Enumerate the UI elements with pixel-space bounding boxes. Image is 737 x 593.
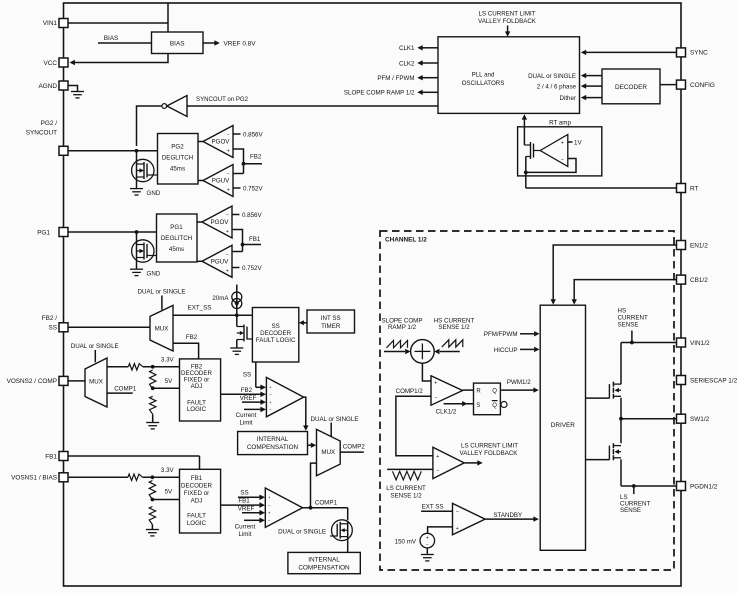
svg-text:+: + <box>226 229 229 235</box>
svg-text:20mA: 20mA <box>212 295 229 302</box>
svg-text:−: − <box>268 518 271 523</box>
svg-text:−: − <box>268 503 271 508</box>
svg-text:Q: Q <box>492 403 497 409</box>
svg-text:LS CURRENT LIMIT: LS CURRENT LIMIT <box>461 442 518 449</box>
svg-text:−: − <box>227 171 230 177</box>
svg-text:5V: 5V <box>165 489 173 496</box>
svg-text:VIN1/2: VIN1/2 <box>690 340 710 347</box>
svg-text:DECODER: DECODER <box>260 330 291 337</box>
svg-text:SS: SS <box>48 325 57 332</box>
svg-text:PGUV: PGUV <box>211 259 229 266</box>
svg-text:Dither: Dither <box>559 95 576 102</box>
svg-text:LOGIC: LOGIC <box>187 520 207 527</box>
svg-text:CLK1: CLK1 <box>399 45 415 52</box>
svg-text:+: + <box>268 511 271 516</box>
svg-text:VOSNS2 / COMP: VOSNS2 / COMP <box>7 378 57 385</box>
svg-text:DUAL or SINGLE: DUAL or SINGLE <box>278 528 326 535</box>
svg-text:INTERNAL: INTERNAL <box>257 436 289 443</box>
svg-text:FB2: FB2 <box>186 334 198 341</box>
svg-text:−: − <box>426 542 429 548</box>
svg-text:VALLEY FOLDBACK: VALLEY FOLDBACK <box>460 450 519 457</box>
svg-text:SLOPE COMP RAMP 1/2: SLOPE COMP RAMP 1/2 <box>344 90 415 97</box>
svg-text:+: + <box>561 140 564 146</box>
svg-text:PLL and: PLL and <box>472 71 495 78</box>
svg-text:CONFIG: CONFIG <box>690 82 715 89</box>
svg-text:Limit: Limit <box>239 419 252 426</box>
svg-text:+: + <box>269 385 272 390</box>
svg-text:INT SS: INT SS <box>321 315 341 322</box>
svg-text:COMP1/2: COMP1/2 <box>396 388 424 395</box>
svg-text:VREF: VREF <box>238 505 255 512</box>
svg-text:SYNCOUT: SYNCOUT <box>26 130 57 137</box>
svg-text:MUX: MUX <box>321 449 335 456</box>
svg-text:VREF: VREF <box>240 395 257 402</box>
svg-text:EN1/2: EN1/2 <box>690 242 708 249</box>
svg-text:LS CURRENT: LS CURRENT <box>386 485 426 492</box>
svg-text:LS CURRENT LIMIT: LS CURRENT LIMIT <box>479 10 536 17</box>
svg-text:+: + <box>227 188 230 194</box>
svg-text:R: R <box>476 389 481 395</box>
svg-text:−: − <box>269 392 272 397</box>
svg-text:CHANNEL 1/2: CHANNEL 1/2 <box>385 236 427 243</box>
svg-text:FAULT LOGIC: FAULT LOGIC <box>256 337 296 344</box>
svg-text:PG2 /: PG2 / <box>41 120 58 127</box>
svg-text:PFM / FPWM: PFM / FPWM <box>377 75 414 82</box>
svg-text:3.3V: 3.3V <box>161 356 175 363</box>
svg-text:150 mV: 150 mV <box>395 538 417 545</box>
svg-text:PG2: PG2 <box>171 143 184 150</box>
svg-text:RT: RT <box>690 185 698 192</box>
svg-text:−: − <box>227 132 230 138</box>
svg-text:PGOV: PGOV <box>212 139 231 146</box>
svg-text:Q: Q <box>492 389 497 395</box>
svg-text:2 / 4 / 6 phase: 2 / 4 / 6 phase <box>537 83 577 90</box>
svg-text:RT amp: RT amp <box>549 120 571 127</box>
svg-text:SENSE 1/2: SENSE 1/2 <box>438 324 470 331</box>
svg-text:GND: GND <box>147 190 161 197</box>
svg-text:3.3V: 3.3V <box>161 467 175 474</box>
svg-text:FB1: FB1 <box>45 453 57 460</box>
svg-text:0.752V: 0.752V <box>243 185 263 192</box>
svg-text:−: − <box>226 252 229 258</box>
svg-text:1V: 1V <box>574 139 582 146</box>
svg-text:FB1: FB1 <box>249 236 261 243</box>
svg-text:+: + <box>434 380 437 386</box>
svg-text:SYNC: SYNC <box>690 50 708 57</box>
svg-text:−: − <box>436 468 439 474</box>
svg-text:HS: HS <box>618 307 627 314</box>
svg-text:FAULT: FAULT <box>187 513 206 520</box>
svg-text:CLK2: CLK2 <box>399 60 415 67</box>
svg-text:SENSE 1/2: SENSE 1/2 <box>390 493 422 500</box>
svg-text:SS: SS <box>271 323 279 330</box>
svg-text:−: − <box>226 213 229 219</box>
svg-text:COMP1: COMP1 <box>114 385 137 392</box>
svg-text:PGUV: PGUV <box>212 178 230 185</box>
svg-text:PFM/FPWM: PFM/FPWM <box>484 331 518 338</box>
svg-text:S: S <box>476 403 480 409</box>
svg-text:FB2: FB2 <box>241 387 253 394</box>
svg-text:Current: Current <box>236 412 257 419</box>
svg-text:ADJ: ADJ <box>191 498 203 505</box>
svg-text:SW1/2: SW1/2 <box>690 416 710 423</box>
svg-text:SERIESCAP 1/2: SERIESCAP 1/2 <box>690 377 737 384</box>
svg-text:DRIVER: DRIVER <box>551 422 576 429</box>
svg-text:HICCUP: HICCUP <box>494 347 518 354</box>
svg-text:VOSNS1 / BIAS: VOSNS1 / BIAS <box>11 475 57 482</box>
svg-text:PG1: PG1 <box>170 224 183 231</box>
svg-text:TIMER: TIMER <box>321 323 341 330</box>
svg-text:COMPENSATION: COMPENSATION <box>298 565 350 572</box>
svg-text:ADJ: ADJ <box>191 383 203 390</box>
svg-text:GND: GND <box>147 271 161 278</box>
svg-text:DEGLITCH: DEGLITCH <box>162 154 193 161</box>
svg-text:SENSE: SENSE <box>620 507 641 514</box>
svg-text:DUAL or SINGLE: DUAL or SINGLE <box>138 289 186 296</box>
svg-text:+: + <box>436 454 439 460</box>
svg-text:VREF 0.8V: VREF 0.8V <box>224 40 257 47</box>
svg-text:DEGLITCH: DEGLITCH <box>161 235 192 242</box>
svg-text:INTERNAL: INTERNAL <box>308 557 340 564</box>
svg-text:DECODER: DECODER <box>615 84 647 91</box>
svg-text:45ms: 45ms <box>169 246 184 253</box>
svg-text:+: + <box>268 495 271 500</box>
svg-text:COMP1: COMP1 <box>315 500 338 507</box>
svg-text:SS: SS <box>240 490 248 497</box>
svg-text:FB1: FB1 <box>238 498 250 505</box>
svg-text:Limit: Limit <box>238 531 251 538</box>
svg-text:DUAL or SINGLE: DUAL or SINGLE <box>71 343 119 350</box>
svg-text:VCC: VCC <box>44 60 58 67</box>
svg-text:Current: Current <box>235 524 256 531</box>
svg-text:0.856V: 0.856V <box>243 131 263 138</box>
svg-text:0.856V: 0.856V <box>242 212 262 219</box>
svg-text:VIN1: VIN1 <box>43 20 58 27</box>
svg-text:FB2 /: FB2 / <box>42 315 57 322</box>
svg-text:+: + <box>269 400 272 405</box>
svg-text:−: − <box>561 157 564 163</box>
svg-text:SENSE: SENSE <box>618 322 639 329</box>
svg-text:EXT SS: EXT SS <box>422 503 444 510</box>
svg-text:DECODER: DECODER <box>181 483 212 490</box>
svg-text:DUAL or SINGLE: DUAL or SINGLE <box>311 416 359 423</box>
svg-text:AGND: AGND <box>39 83 58 90</box>
svg-text:CB1/2: CB1/2 <box>690 277 708 284</box>
svg-text:SS: SS <box>243 372 251 379</box>
svg-text:LOGIC: LOGIC <box>187 406 207 413</box>
svg-text:MUX: MUX <box>155 325 169 332</box>
svg-text:VALLEY FOLDBACK: VALLEY FOLDBACK <box>478 18 537 25</box>
svg-text:CLK1/2: CLK1/2 <box>436 409 457 416</box>
svg-text:DUAL or SINGLE: DUAL or SINGLE <box>528 73 576 80</box>
svg-text:EXT_SS: EXT_SS <box>188 304 212 311</box>
svg-text:PGOV: PGOV <box>211 219 230 226</box>
svg-text:PG1: PG1 <box>37 229 50 236</box>
svg-text:CURRENT: CURRENT <box>618 314 648 321</box>
svg-text:FB2: FB2 <box>250 154 262 161</box>
svg-text:5V: 5V <box>165 378 173 385</box>
svg-text:RAMP 1/2: RAMP 1/2 <box>388 324 417 331</box>
svg-text:COMPENSATION: COMPENSATION <box>247 444 299 451</box>
svg-text:BIAS: BIAS <box>104 35 119 42</box>
svg-text:+: + <box>227 149 230 155</box>
svg-text:PGDN1/2: PGDN1/2 <box>690 483 718 490</box>
svg-text:OSCILLATORS: OSCILLATORS <box>462 80 505 87</box>
svg-text:MUX: MUX <box>89 378 103 385</box>
svg-text:−: − <box>269 407 272 412</box>
svg-text:+: + <box>426 536 429 542</box>
svg-text:45ms: 45ms <box>170 165 185 172</box>
svg-text:+: + <box>456 526 459 532</box>
svg-text:FB1: FB1 <box>191 475 203 482</box>
svg-text:−: − <box>434 395 437 401</box>
svg-text:SYNCOUT on PG2: SYNCOUT on PG2 <box>196 96 249 103</box>
svg-text:STANDBY: STANDBY <box>493 512 522 519</box>
svg-text:−: − <box>456 509 459 515</box>
svg-text:BIAS: BIAS <box>170 40 185 47</box>
svg-text:PWM1/2: PWM1/2 <box>507 379 531 386</box>
svg-text:0.752V: 0.752V <box>242 265 262 272</box>
svg-text:COMP2: COMP2 <box>343 444 366 451</box>
svg-text:+: + <box>226 268 229 274</box>
svg-text:FIXED or: FIXED or <box>184 490 209 497</box>
